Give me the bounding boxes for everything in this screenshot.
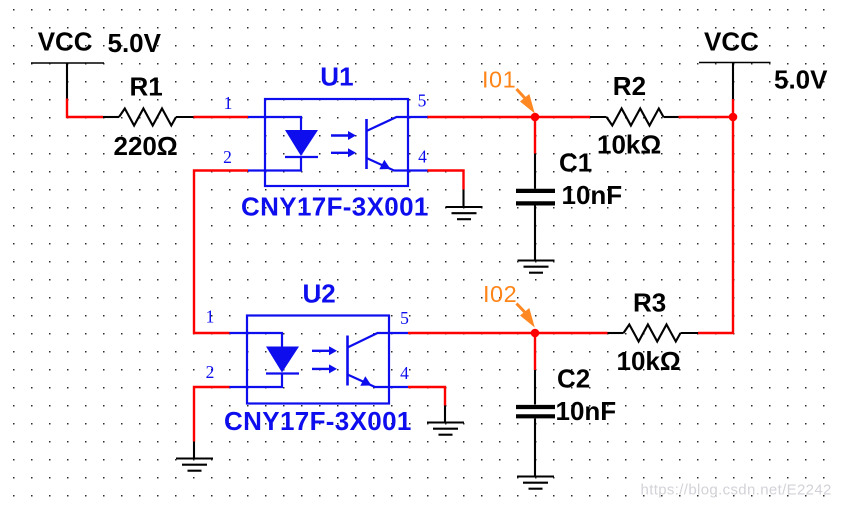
svg-text:U2: U2 bbox=[303, 278, 336, 308]
svg-text:R3: R3 bbox=[633, 288, 666, 318]
svg-text:U1: U1 bbox=[320, 62, 353, 92]
svg-text:10kΩ: 10kΩ bbox=[597, 130, 661, 160]
svg-text:C2: C2 bbox=[557, 364, 590, 394]
svg-text:220Ω: 220Ω bbox=[114, 131, 178, 161]
svg-text:10nF: 10nF bbox=[556, 396, 617, 426]
svg-text:VCC: VCC bbox=[704, 26, 759, 56]
svg-text:C1: C1 bbox=[559, 148, 592, 178]
svg-text:2: 2 bbox=[206, 362, 215, 382]
svg-text:5: 5 bbox=[418, 90, 427, 110]
svg-text:I01: I01 bbox=[482, 67, 516, 93]
svg-text:5.0V: 5.0V bbox=[774, 65, 828, 95]
svg-text:R1: R1 bbox=[130, 72, 163, 102]
svg-text:10kΩ: 10kΩ bbox=[617, 346, 681, 376]
svg-text:1: 1 bbox=[206, 307, 215, 327]
svg-text:4: 4 bbox=[400, 363, 409, 383]
svg-text:R2: R2 bbox=[613, 71, 646, 101]
svg-text:VCC: VCC bbox=[38, 26, 93, 56]
svg-text:5: 5 bbox=[400, 308, 409, 328]
svg-text:2: 2 bbox=[223, 147, 232, 167]
svg-text:I02: I02 bbox=[483, 281, 517, 307]
svg-text:5.0V: 5.0V bbox=[108, 28, 162, 58]
svg-text:4: 4 bbox=[418, 147, 427, 167]
svg-text:CNY17F-3X001: CNY17F-3X001 bbox=[241, 192, 429, 222]
svg-text:https://blog.csdn.net/E2242: https://blog.csdn.net/E2242 bbox=[641, 481, 832, 498]
svg-text:10nF: 10nF bbox=[562, 180, 623, 210]
svg-text:1: 1 bbox=[224, 93, 233, 113]
svg-text:CNY17F-3X001: CNY17F-3X001 bbox=[224, 406, 412, 436]
